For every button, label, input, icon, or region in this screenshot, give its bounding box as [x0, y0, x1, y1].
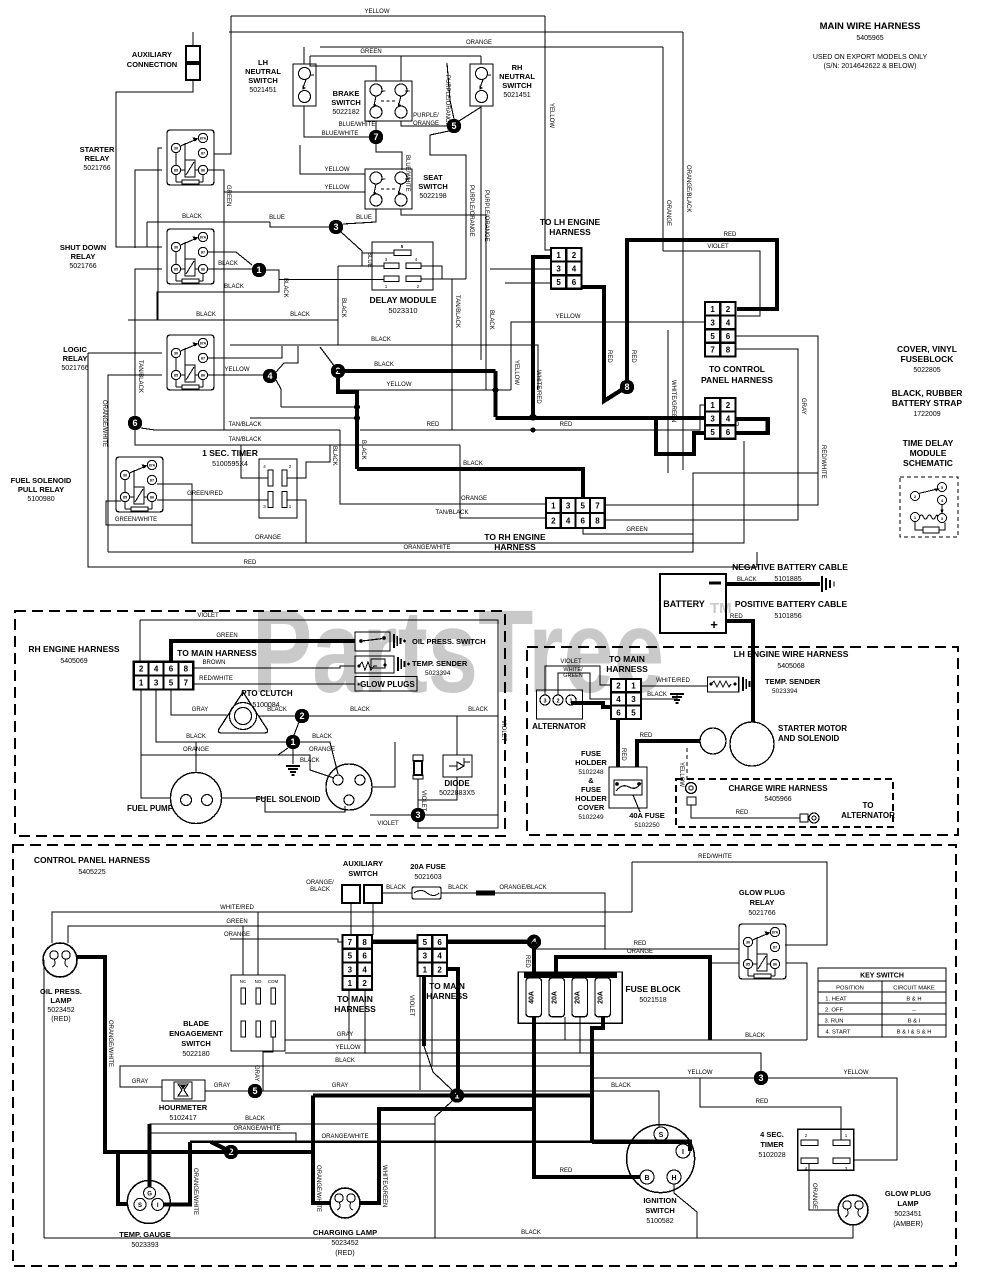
svg-text:85: 85: [174, 169, 178, 173]
svg-text:87A: 87A: [772, 931, 779, 935]
svg-text:3: 3: [415, 810, 420, 820]
svg-text:86: 86: [773, 963, 777, 967]
wire YELLOW right of 3: [768, 1078, 897, 1160]
svg-text:ORANGE: ORANGE: [461, 496, 487, 502]
svg-text:3: 3: [566, 502, 571, 511]
svg-text:(RED): (RED): [335, 1250, 354, 1257]
wire aux fuse line: [382, 892, 412, 894]
wire positive cable thick: [726, 621, 753, 722]
svg-text:87A: 87A: [200, 236, 207, 240]
svg-text:SWITCH: SWITCH: [331, 98, 361, 107]
svg-text:3. RUN: 3. RUN: [824, 1019, 843, 1025]
svg-text:6: 6: [132, 418, 137, 428]
fuse holder: [609, 767, 647, 808]
svg-text:PartsTree: PartsTree: [252, 586, 664, 718]
svg-text:5021451: 5021451: [249, 87, 276, 94]
svg-text:RED/WHITE: RED/WHITE: [820, 445, 826, 479]
wire ORANGE/BLACK right: [495, 893, 605, 949]
svg-text:SWITCH: SWITCH: [181, 1039, 211, 1048]
svg-text:LOGIC: LOGIC: [63, 345, 87, 354]
svg-text:TAN/BLACK: TAN/BLACK: [229, 422, 262, 428]
junction 1: [252, 263, 266, 277]
wire starter 30 left: [158, 148, 162, 320]
svg-text:GREEN/RED: GREEN/RED: [187, 491, 223, 497]
svg-text:BLACK: BLACK: [310, 887, 330, 893]
junction 3 (RH engine): [411, 808, 425, 822]
wire fuse to 40A label: [633, 795, 640, 812]
svg-text:3: 3: [631, 695, 636, 704]
svg-text:NO: NO: [405, 177, 410, 181]
svg-text:HOLDER: HOLDER: [575, 794, 607, 803]
svg-text:2: 2: [551, 517, 556, 526]
svg-text:RED: RED: [724, 232, 737, 238]
svg-text:BLUE: BLUE: [366, 252, 372, 268]
svg-text:SEAT: SEAT: [423, 173, 443, 182]
eyelet terminal: [800, 814, 808, 822]
wire YELLOW row: [285, 1053, 761, 1071]
svg-text:BLACK: BLACK: [340, 298, 346, 318]
junction 2 (RH engine): [295, 709, 309, 723]
svg-text:NEUTRAL: NEUTRAL: [245, 67, 281, 76]
battery: [660, 574, 726, 633]
svg-text:GRAY: GRAY: [337, 1032, 354, 1038]
svg-text:4: 4: [154, 665, 159, 674]
wire GREEN under RH conn: [583, 528, 693, 534]
svg-text:ORANGE/BLACK: ORANGE/BLACK: [499, 885, 546, 891]
wire BLACK right of 2: [457, 715, 498, 717]
svg-text:+: +: [710, 617, 718, 632]
wire into LH conn pin5: [505, 282, 551, 284]
wire 1 diagonals: [435, 1101, 452, 1238]
svg-text:4: 4: [616, 695, 621, 704]
svg-text:BLACK: BLACK: [312, 734, 332, 740]
svg-text:B: B: [644, 1175, 649, 1182]
wire ORANGE into RH conn: [340, 430, 546, 504]
wire 5 to RH neutral bottom: [459, 106, 481, 121]
wire RED to glow relay: [534, 948, 739, 950]
wire 5 zigzag down: [430, 131, 466, 279]
svg-text:MAIN WIRE HARNESS: MAIN WIRE HARNESS: [820, 21, 921, 32]
svg-text:3: 3: [710, 318, 715, 327]
svg-text:6: 6: [362, 952, 367, 961]
svg-text:AND SOLENOID: AND SOLENOID: [778, 734, 840, 743]
svg-text:5021603: 5021603: [414, 874, 441, 881]
svg-text:5022198: 5022198: [419, 193, 446, 200]
svg-text:YELLOW: YELLOW: [386, 382, 411, 388]
svg-text:HARNESS: HARNESS: [606, 664, 648, 674]
svg-text:NEGATIVE BATTERY CABLE: NEGATIVE BATTERY CABLE: [732, 562, 848, 572]
svg-text:6: 6: [726, 332, 731, 341]
wire seat right to vertical: [401, 209, 486, 390]
svg-text:TAN/BLACK: TAN/BLACK: [229, 437, 262, 443]
svg-text:CIRCUIT MAKE: CIRCUIT MAKE: [893, 986, 935, 992]
svg-text:BRAKE: BRAKE: [333, 89, 360, 98]
wire thick I terminal up: [164, 1142, 190, 1205]
svg-text:YELLOW: YELLOW: [678, 762, 684, 787]
ground (RH engine): [286, 766, 300, 775]
svg-text:PULL RELAY: PULL RELAY: [18, 485, 64, 494]
svg-text:RED: RED: [427, 422, 440, 428]
svg-text:AUXILIARY: AUXILIARY: [343, 859, 383, 868]
junction 4 (control panel): [527, 935, 541, 949]
svg-text:ORANGE: ORANGE: [466, 40, 492, 46]
svg-text:5100582: 5100582: [646, 1218, 673, 1225]
svg-text:5405225: 5405225: [78, 869, 105, 876]
svg-text:YELLOW: YELLOW: [555, 314, 580, 320]
fuse link component: [413, 755, 423, 779]
svg-text:5101856: 5101856: [774, 613, 801, 620]
svg-text:5: 5: [451, 121, 456, 131]
svg-text:5: 5: [169, 679, 174, 688]
wire C2 bottom drops: [431, 976, 433, 1066]
wire BLACK pin3 to 1: [156, 689, 286, 742]
wire ORANGE/BLACK vertical: [682, 32, 684, 470]
svg-text:RED: RED: [244, 560, 257, 566]
svg-text:SWITCH: SWITCH: [418, 182, 448, 191]
svg-text:SWITCH: SWITCH: [348, 869, 378, 878]
svg-text:FUEL SOLENOID: FUEL SOLENOID: [256, 795, 321, 804]
svg-text:FUSE: FUSE: [581, 785, 601, 794]
svg-text:5100595X4: 5100595X4: [212, 461, 248, 468]
wire YELLOW to timer: [592, 1077, 754, 1079]
wire thick oil lamp down: [77, 957, 313, 1152]
wire thick charging lamp left: [313, 1096, 331, 1204]
svg-text:85: 85: [174, 268, 178, 272]
svg-text:5102248: 5102248: [578, 769, 604, 776]
temp sender (LH): [708, 677, 739, 692]
svg-text:ORANGE/WHITE: ORANGE/WHITE: [315, 1165, 321, 1212]
svg-text:GREEN: GREEN: [216, 633, 237, 639]
wire VIOLET to pin2: [139, 620, 141, 662]
wire starter 85 left: [135, 170, 162, 248]
svg-text:BLACK: BLACK: [196, 312, 216, 318]
wire thick GREEN to oil switch: [171, 641, 355, 662]
svg-text:RED: RED: [736, 810, 749, 816]
svg-text:2: 2: [726, 401, 731, 410]
svg-text:ORANGE: ORANGE: [811, 1183, 817, 1209]
svg-text:20A: 20A: [575, 991, 582, 1004]
svg-text:NC: NC: [240, 979, 247, 984]
wire oil lamp left down: [43, 960, 45, 1238]
PTO clutch 5100084: [218, 692, 267, 733]
svg-text:5021766: 5021766: [83, 165, 110, 172]
wire BLACK long above logic relay: [128, 319, 338, 321]
svg-text:GREEN/WHITE: GREEN/WHITE: [115, 517, 157, 523]
svg-text:7: 7: [184, 679, 189, 688]
wire BLACK from gauge G: [150, 1123, 435, 1125]
svg-text:30: 30: [174, 352, 178, 356]
svg-text:ORANGE: ORANGE: [627, 949, 653, 955]
wire BLACK row: [285, 1065, 592, 1067]
junction 8: [620, 380, 634, 394]
oil pressure switch: [355, 632, 390, 651]
wire thick G up: [148, 1124, 152, 1187]
svg-text:5102417: 5102417: [169, 1115, 196, 1122]
wire fuse2 thin drop: [564, 1017, 566, 1040]
svg-text:GRAY: GRAY: [214, 1083, 231, 1089]
svg-text:86: 86: [201, 268, 205, 272]
wire thick C2 pin1 down: [422, 976, 426, 1046]
delay module 5023310: [372, 242, 433, 290]
svg-text:TAN/BLACK: TAN/BLACK: [436, 510, 469, 516]
wire WHITE/RED long: [52, 912, 632, 943]
starter motor and solenoid: [700, 722, 774, 766]
switch LH NEUTRAL SWITCH 5021451: [293, 64, 316, 106]
svg-text:5021518: 5021518: [639, 997, 666, 1004]
svg-text:5021766: 5021766: [69, 263, 96, 270]
svg-text:87: 87: [773, 946, 777, 950]
svg-text:YELLOW: YELLOW: [324, 185, 349, 191]
svg-text:87: 87: [201, 152, 205, 156]
svg-text:IGNITION: IGNITION: [643, 1196, 676, 1205]
svg-text:5100980: 5100980: [27, 496, 54, 503]
junction 6: [128, 416, 142, 430]
svg-text:5405966: 5405966: [764, 796, 791, 803]
svg-text:NEUTRAL: NEUTRAL: [499, 72, 535, 81]
svg-text:5: 5: [252, 1086, 257, 1096]
svg-text:87: 87: [150, 479, 154, 483]
svg-text:H: H: [671, 1175, 676, 1182]
svg-text:BLACK: BLACK: [282, 278, 288, 298]
wire aux sw drops: [350, 903, 352, 935]
wire GRAY to clutch: [171, 689, 228, 715]
svg-text:TO MAIN HARNESS: TO MAIN HARNESS: [177, 648, 257, 658]
junction 2: [331, 364, 345, 378]
svg-text:6: 6: [581, 517, 586, 526]
svg-text:85: 85: [123, 496, 127, 500]
wire BLACK clutch to 2: [258, 715, 295, 717]
wire RED bottom long: [155, 552, 757, 567]
wire ORANGE pin1: [141, 689, 334, 778]
svg-text:GRAY: GRAY: [332, 1083, 349, 1089]
wire RED/WHITE left end: [631, 862, 633, 912]
wire thick fuse40 down RED: [534, 1017, 640, 1177]
wire LH neutral bottom: [304, 106, 369, 137]
wire BLUE to junction 3: [270, 222, 329, 227]
svg-text:BATTERY: BATTERY: [663, 599, 705, 609]
svg-text:7: 7: [595, 502, 600, 511]
wire PURPLE/ORANGE long vertical: [480, 106, 482, 360]
svg-text:ORANGE/WHITE: ORANGE/WHITE: [101, 400, 107, 447]
wire RED/WHITE top: [632, 862, 827, 945]
svg-text:RELAY: RELAY: [750, 898, 775, 907]
wire shutdown 87 to junction 1: [208, 252, 252, 265]
svg-text:2. OFF: 2. OFF: [825, 1008, 843, 1014]
svg-text:GRAY: GRAY: [192, 707, 209, 713]
connector TO RH ENGINE HARNESS: [546, 498, 605, 528]
wire 1 diagonal to orange: [278, 748, 288, 755]
svg-text:ORANGE/WHITE: ORANGE/WHITE: [321, 1134, 368, 1140]
svg-text:OIL PRESS.: OIL PRESS.: [40, 987, 82, 996]
svg-text:COM: COM: [268, 979, 279, 984]
connector C2 TO MAIN HARNESS: [418, 935, 447, 976]
wire BROWN to temp sender: [193, 666, 355, 668]
wire RED/WHITE to glow plugs: [193, 683, 355, 685]
wire RED right mid: [360, 405, 705, 430]
svg-text:BLACK: BLACK: [448, 885, 468, 891]
svg-text:BROWN: BROWN: [203, 660, 226, 666]
svg-text:8: 8: [726, 346, 731, 355]
svg-text:1: 1: [139, 679, 144, 688]
temp sender (RH): [355, 656, 394, 673]
junction thick cross: [530, 414, 537, 421]
svg-text:BLACK: BLACK: [331, 446, 337, 466]
svg-text:RELAY: RELAY: [85, 154, 110, 163]
svg-text:BATTERY STRAP: BATTERY STRAP: [892, 398, 963, 408]
svg-text:COVER, VINYL: COVER, VINYL: [897, 344, 957, 354]
wire thick fuse4 down: [592, 1017, 603, 1142]
wire ORANGE/WHITE long: [190, 1141, 592, 1144]
wire ORANGE top: [320, 46, 663, 48]
wire loop from 1 BLACK: [157, 270, 279, 320]
wire VIOLET alternator: [545, 666, 611, 695]
wire BLACK 2 right: [309, 716, 457, 755]
svg-text:FUSE BLOCK: FUSE BLOCK: [625, 984, 681, 994]
wire thick B pin5 staircase: [656, 418, 705, 454]
svg-text:ORANGE: ORANGE: [309, 747, 335, 753]
wires into 2 from left: [320, 347, 335, 367]
svg-text:WHITE/RED: WHITE/RED: [220, 905, 254, 911]
svg-text:CHARGE WIRE HARNESS: CHARGE WIRE HARNESS: [728, 784, 828, 793]
hourmeter 5102417: [162, 1080, 205, 1101]
svg-text:FUSE: FUSE: [581, 749, 601, 758]
svg-text:5022182: 5022182: [332, 109, 359, 116]
wire into LH conn pin3: [490, 268, 551, 270]
svg-text:GREEN: GREEN: [226, 919, 247, 925]
svg-text:5023393: 5023393: [131, 1242, 158, 1249]
wire ORANGE/WHITE mid: [150, 1133, 296, 1142]
svg-text:HOURMETER: HOURMETER: [159, 1103, 208, 1112]
svg-text:2: 2: [556, 699, 559, 705]
svg-text:TO MAIN: TO MAIN: [337, 994, 373, 1004]
svg-text:RED: RED: [756, 1099, 769, 1105]
diode 5022883X5: [443, 755, 472, 777]
wire thick starter to fuse holder: [637, 741, 700, 767]
harness box CONTROL PANEL HARNESS: [13, 845, 956, 1266]
wire pull relay loop GREEN/WHITE: [106, 484, 192, 525]
timer 1 SEC. TIMER 5100595X4: [202, 448, 297, 518]
svg-text:BLUE/WHITE: BLUE/WHITE: [322, 131, 359, 137]
svg-text:4: 4: [566, 517, 571, 526]
svg-text:8: 8: [362, 938, 367, 947]
svg-text:ORANGE/WHITE: ORANGE/WHITE: [192, 1168, 198, 1215]
svg-text:STARTER MOTOR: STARTER MOTOR: [778, 724, 847, 733]
svg-text:GREEN: GREEN: [626, 527, 647, 533]
svg-text:PURPLE/: PURPLE/: [413, 113, 439, 119]
svg-text:BLACK: BLACK: [218, 261, 238, 267]
svg-text:87A: 87A: [149, 464, 156, 468]
wire BLACK mid: [230, 345, 538, 390]
wire PURPLE/ORANGE diagonal to 5: [447, 63, 454, 119]
svg-text:40A FUSE: 40A FUSE: [629, 811, 665, 820]
ring terminal: [686, 783, 697, 794]
svg-text:5023451: 5023451: [894, 1211, 921, 1218]
svg-text:DELAY MODULE: DELAY MODULE: [369, 295, 436, 305]
wire logic 85 ORANGE/WHITE: [108, 375, 162, 552]
wire thick temp gauge drop: [118, 1152, 128, 1204]
svg-text:5102250: 5102250: [634, 822, 660, 829]
svg-text:4: 4: [437, 952, 442, 961]
svg-text:SHUT DOWN: SHUT DOWN: [60, 243, 106, 252]
wire ORANGE timer to lamp: [809, 1164, 838, 1211]
svg-text:TAN/BLACK: TAN/BLACK: [454, 295, 460, 328]
svg-text:&: &: [588, 776, 594, 785]
svg-text:BLACK: BLACK: [463, 461, 483, 467]
svg-text:8: 8: [624, 382, 629, 392]
wire GREEN long: [68, 926, 605, 943]
svg-text:KEY SWITCH: KEY SWITCH: [860, 973, 904, 980]
wire BLACK to ground (LH): [641, 694, 677, 699]
svg-text:2: 2: [437, 965, 442, 974]
wire ORANGE/WHITE bottom: [108, 473, 818, 552]
wire YELLOW 2 to seat sw: [224, 191, 365, 193]
wire timer pin2 up right: [287, 445, 330, 478]
wire delay pin2 right TAN/BLACK: [421, 279, 452, 430]
svg-text:TIME DELAY: TIME DELAY: [903, 438, 954, 448]
svg-text:SWITCH: SWITCH: [502, 81, 532, 90]
connector TO CONTROL PANEL HARNESS lower: [705, 398, 736, 439]
svg-text:87A: 87A: [200, 342, 207, 346]
svg-text:1: 1: [556, 251, 561, 260]
svg-text:30: 30: [746, 941, 750, 945]
svg-text:ORANGE/WHITE: ORANGE/WHITE: [233, 1126, 280, 1132]
svg-text:BLACK: BLACK: [335, 1058, 355, 1064]
wire thick down right: [493, 371, 497, 417]
connector C1 TO MAIN HARNESS: [343, 935, 372, 990]
svg-text:YELLOW: YELLOW: [364, 9, 389, 15]
svg-text:HARNESS: HARNESS: [334, 1004, 376, 1014]
svg-text:(RED): (RED): [51, 1016, 70, 1023]
wire thick 4 down to fuse: [532, 942, 536, 974]
svg-text:(S/N: 2014642622 & BELOW): (S/N: 2014642622 & BELOW): [824, 63, 917, 70]
junction 4: [263, 369, 277, 383]
relay GLOW PLUG RELAY: [739, 924, 786, 979]
svg-text:FUSEBLOCK: FUSEBLOCK: [901, 354, 955, 364]
svg-text:RED: RED: [630, 350, 636, 363]
svg-text:1: 1: [290, 737, 295, 747]
junction 3 (control panel): [754, 1071, 768, 1085]
wire TAN/BLACK 2: [135, 430, 460, 445]
alternator: [537, 690, 583, 719]
svg-text:2: 2: [139, 665, 144, 674]
wire ORANGE bottom: [192, 441, 744, 543]
wire LH neutral top: [303, 47, 305, 64]
wire BLACK 1 right: [300, 742, 338, 774]
svg-text:30: 30: [174, 246, 178, 250]
wire YELLOW to seat sw: [300, 145, 365, 174]
svg-text:1: 1: [631, 682, 636, 691]
svg-text:30: 30: [123, 474, 127, 478]
fuel pump: [171, 773, 222, 824]
fuse block 5021518: [518, 972, 622, 1023]
wire from 7 down BLUE/WHITE: [376, 144, 402, 170]
svg-text:87: 87: [201, 357, 205, 361]
svg-text:BLACK: BLACK: [611, 1083, 631, 1089]
svg-text:B & I: B & I: [908, 1019, 921, 1025]
svg-text:GRAY: GRAY: [132, 1079, 149, 1085]
svg-text:GREEN: GREEN: [563, 673, 583, 679]
svg-text:GREEN: GREEN: [360, 49, 381, 55]
wire timer pin4 from tan/black: [241, 445, 268, 478]
lamp CHARGING LAMP: [330, 1188, 360, 1218]
wire YELLOW vertical right: [545, 16, 551, 250]
svg-text:5405069: 5405069: [60, 658, 87, 665]
harness box LH ENGINE WIRE HARNESS: [527, 647, 958, 835]
svg-text:20A: 20A: [598, 991, 605, 1004]
wire BLACK above shutdown: [147, 221, 270, 223]
svg-text:ORANGE: ORANGE: [255, 535, 281, 541]
svg-text:YELLOW: YELLOW: [548, 103, 554, 128]
